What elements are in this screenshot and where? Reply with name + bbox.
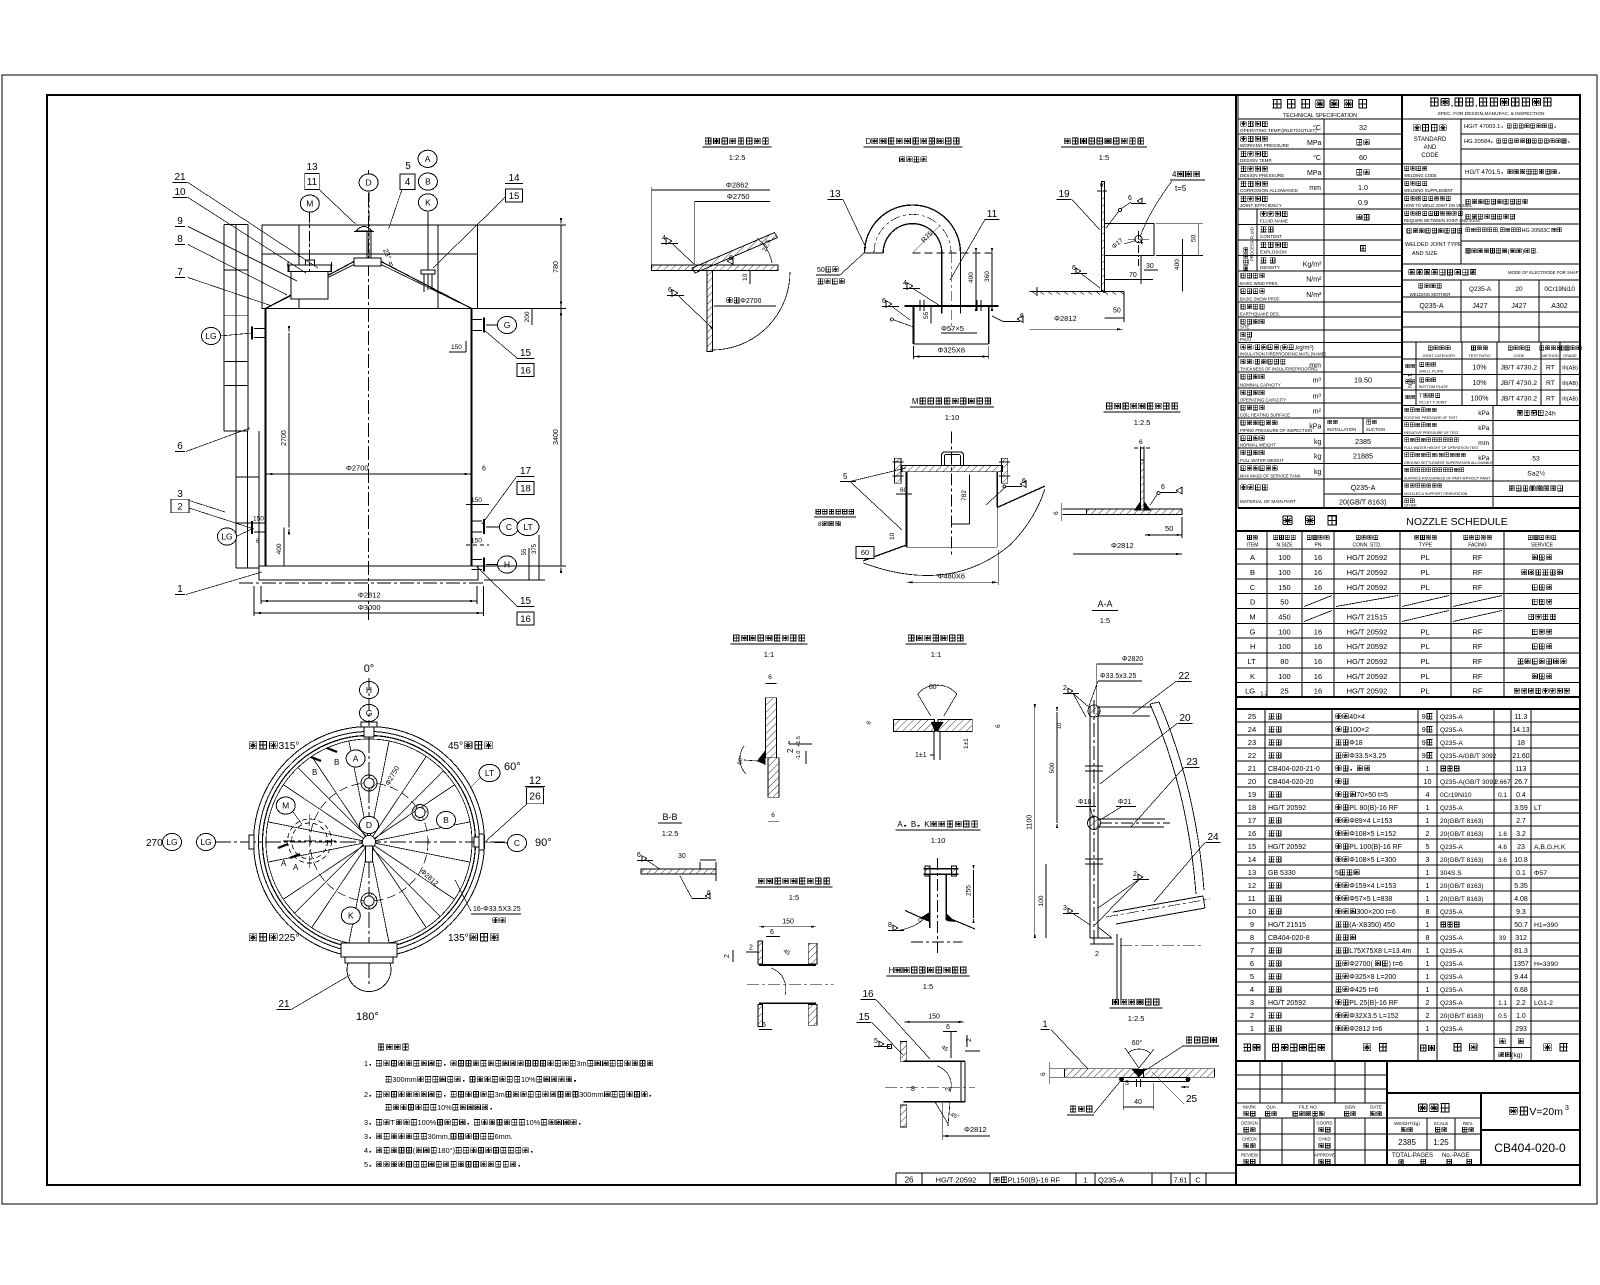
bottom brace plates — [1113, 896, 1203, 912]
svg-text:16: 16 — [1314, 642, 1322, 651]
svg-text:1: 1 — [1426, 985, 1430, 994]
svg-text:RF: RF — [1473, 657, 1483, 666]
svg-text:GRADE: GRADE — [1563, 354, 1577, 358]
svg-text:100: 100 — [1278, 628, 1291, 637]
svg-text:25: 25 — [1248, 712, 1256, 721]
parts row item 12 — [1236, 890, 1580, 892]
svg-text:26: 26 — [529, 791, 541, 803]
svg-text:Φ325X6: Φ325X6 — [937, 346, 965, 355]
svg-text:Φ159×4 L=153: Φ159×4 L=153 — [1349, 883, 1396, 890]
svg-text:III(AB): III(AB) — [1562, 381, 1578, 387]
svg-text:1:10: 1:10 — [931, 836, 946, 845]
svg-text:26.7: 26.7 — [1514, 779, 1528, 786]
svg-text:Φ480X6: Φ480X6 — [937, 572, 965, 581]
svg-text:16: 16 — [1314, 657, 1322, 666]
svg-text:RF: RF — [1473, 628, 1483, 637]
svg-text:°C: °C — [1313, 154, 1321, 162]
parts row item 1 — [1236, 1033, 1580, 1035]
svg-text:HG/T 20592: HG/T 20592 — [1347, 583, 1388, 592]
svg-text:0Cr19Ni10: 0Cr19Ni10 — [1544, 286, 1575, 293]
svg-text:1: 1 — [1426, 764, 1430, 773]
svg-text:HOW TO WELD JOINT ON VESSEL: HOW TO WELD JOINT ON VESSEL — [1404, 203, 1473, 208]
svg-text:1: 1 — [1042, 1019, 1047, 1029]
svg-text:6: 6 — [1139, 439, 1143, 446]
svg-text:kg: kg — [1314, 439, 1322, 446]
svg-text:Φ18: Φ18 — [1078, 799, 1091, 806]
svg-text:1: 1 — [1083, 1176, 1087, 1185]
svg-text:A: A — [425, 154, 431, 164]
svg-text:PL: PL — [1421, 642, 1430, 651]
svg-text:III(AB): III(AB) — [1562, 397, 1578, 403]
tank top curb ring band — [262, 225, 478, 309]
svg-text:K: K — [425, 198, 431, 208]
svg-text:HG/T 20592: HG/T 20592 — [1268, 1000, 1306, 1007]
svg-text:1: 1 — [1426, 881, 1430, 890]
svg-text:3: 3 — [1063, 905, 1067, 912]
svg-text:FULL WATER HEIGHT OF OPERATION: FULL WATER HEIGHT OF OPERATION TEST — [1404, 446, 1480, 450]
title block — [1236, 1061, 1580, 1165]
svg-text:9: 9 — [1422, 712, 1426, 721]
svg-text:C: C — [1195, 1176, 1201, 1185]
svg-text:DESIGN PRESSURE: DESIGN PRESSURE — [1240, 173, 1284, 178]
svg-text:MODE OF ELECTRODE FOR SHAFT: MODE OF ELECTRODE FOR SHAFT — [1508, 270, 1581, 275]
parts row item 23 — [1236, 747, 1580, 749]
svg-text:10%: 10% — [1473, 380, 1487, 387]
manhole M (elevation) — [291, 271, 328, 299]
svg-text:APPROVE: APPROVE — [1314, 1153, 1335, 1158]
svg-text:PL 25(B)-16 RF: PL 25(B)-16 RF — [1349, 1000, 1398, 1007]
svg-text:TYPE: TYPE — [1419, 543, 1433, 549]
svg-text:FULL WATER WEIGHT: FULL WATER WEIGHT — [1240, 458, 1284, 463]
nozzle G — [472, 319, 483, 321]
right-side tables block — [896, 95, 1581, 1185]
svg-text:LG1-2: LG1-2 — [1534, 1000, 1553, 1007]
svg-text:1: 1 — [1426, 946, 1430, 955]
svg-text:100: 100 — [1038, 895, 1045, 906]
svg-text:FILLET T-JOINT: FILLET T-JOINT — [1419, 401, 1447, 405]
svg-text:150: 150 — [928, 1014, 940, 1021]
svg-text:D: D — [366, 820, 372, 830]
svg-text:JB/T 4730.2: JB/T 4730.2 — [1501, 396, 1538, 403]
parts row item 6 — [1236, 968, 1580, 970]
svg-text:Q235-A: Q235-A — [1440, 909, 1463, 916]
svg-text:LG: LG — [166, 837, 177, 847]
svg-text:23: 23 — [1186, 757, 1198, 768]
svg-text:N.SIZE: N.SIZE — [1276, 543, 1293, 549]
svg-text:100: 100 — [1278, 672, 1291, 681]
rafter orbit dash circle — [310, 783, 428, 901]
svg-text:20: 20 — [1515, 286, 1523, 293]
svg-text:JOINT CATEGORY: JOINT CATEGORY — [1423, 354, 1456, 358]
svg-text:COIL HEATING SURFACE: COIL HEATING SURFACE — [1240, 413, 1290, 418]
svg-text:HG/T 20592: HG/T 20592 — [1347, 642, 1388, 651]
svg-text:255: 255 — [966, 885, 973, 896]
svg-text:9: 9 — [1250, 920, 1254, 929]
svg-text:T: T — [1419, 394, 1423, 400]
svg-text:60°: 60° — [929, 683, 940, 691]
svg-text:8: 8 — [818, 521, 822, 528]
svg-text:HG/T 20592: HG/T 20592 — [1347, 672, 1388, 681]
svg-text:6: 6 — [668, 287, 672, 294]
center nozzle flange and D vent pipe — [354, 258, 381, 266]
svg-text:°C: °C — [1313, 124, 1321, 132]
svg-text:0.1: 0.1 — [1498, 792, 1507, 799]
svg-text:JOINT EFFICIENCY: JOINT EFFICIENCY — [1240, 203, 1282, 208]
svg-text:SCALE: SCALE — [1434, 1121, 1449, 1126]
svg-text:Q235-A: Q235-A — [1440, 844, 1463, 851]
svg-text:B: B — [425, 177, 431, 187]
svg-text:55: 55 — [522, 548, 528, 555]
svg-text:Φ325×8 L=200: Φ325×8 L=200 — [1349, 974, 1396, 981]
nameplate bulge at 180° — [341, 943, 397, 957]
svg-text:17: 17 — [1248, 816, 1256, 825]
detail: nozzles A,B,K connection 1:10 — [888, 820, 981, 953]
svg-text:DESIGN: DESIGN — [1241, 1121, 1257, 1126]
svg-text:A: A — [353, 754, 359, 764]
svg-text:Φ2750: Φ2750 — [727, 192, 750, 201]
svg-text:60: 60 — [900, 487, 908, 494]
svg-text:55: 55 — [923, 311, 930, 319]
svg-text:Φ2812: Φ2812 — [1111, 541, 1134, 550]
svg-text:K: K — [1250, 672, 1255, 681]
svg-text:Φ108×5 L=152: Φ108×5 L=152 — [1349, 831, 1396, 838]
svg-text:10: 10 — [1248, 907, 1256, 916]
svg-text:A-A: A-A — [1097, 599, 1112, 609]
svg-text:4: 4 — [662, 235, 666, 242]
svg-text:(A-X8350) 450: (A-X8350) 450 — [1349, 922, 1395, 929]
svg-text:Φ21: Φ21 — [1118, 799, 1131, 806]
svg-text:No.-PAGE: No.-PAGE — [1442, 1153, 1470, 1159]
svg-text:200: 200 — [524, 311, 531, 322]
svg-text:LG: LG — [1245, 687, 1255, 696]
dim 780 and 3400 (right) — [478, 224, 566, 226]
svg-text:3: 3 — [177, 489, 183, 500]
svg-text:15: 15 — [520, 348, 532, 359]
svg-text:III(AB): III(AB) — [1562, 366, 1578, 372]
svg-text:3400: 3400 — [553, 429, 560, 445]
svg-text:CB404-020-20: CB404-020-20 — [1268, 779, 1314, 786]
svg-text:M: M — [1249, 613, 1255, 622]
rim nozzle LG at 270° — [249, 835, 254, 849]
svg-text:4: 4 — [1172, 170, 1177, 179]
svg-text:+1.5: +1.5 — [796, 736, 802, 747]
svg-text:GB 5330: GB 5330 — [1268, 870, 1296, 877]
svg-text:1:2.5: 1:2.5 — [729, 153, 746, 162]
svg-text:T: T — [390, 1118, 395, 1127]
svg-text:Q235-A: Q235-A — [1440, 727, 1463, 734]
svg-text:BASIC SNOW PROF.: BASIC SNOW PROF. — [1240, 297, 1280, 302]
svg-text:100: 100 — [1278, 568, 1291, 577]
svg-text:H: H — [504, 560, 510, 570]
svg-text:6: 6 — [1161, 484, 1165, 491]
parts row item 14 — [1236, 864, 1580, 866]
svg-text:1.6: 1.6 — [1498, 831, 1507, 838]
tank vertical centerline — [368, 170, 370, 620]
svg-text:m³: m³ — [1313, 378, 1322, 385]
svg-text:6: 6 — [1072, 265, 1076, 272]
shell seam marks with 150 dims — [466, 504, 489, 506]
ladder / gauge column — [223, 224, 225, 431]
svg-text:24: 24 — [1207, 832, 1219, 843]
svg-text:D: D — [1250, 598, 1256, 607]
svg-text:17: 17 — [520, 466, 532, 477]
svg-text:CB404-020-8: CB404-020-8 — [1268, 935, 1310, 942]
svg-text:304S.S: 304S.S — [1440, 870, 1462, 877]
svg-text:19: 19 — [1058, 189, 1070, 200]
svg-text:M: M — [912, 397, 919, 406]
svg-text:SERVICE: SERVICE — [1531, 543, 1554, 549]
svg-text:H=3390: H=3390 — [1534, 961, 1558, 968]
svg-text:0Cr19Ni10: 0Cr19Ni10 — [1440, 792, 1472, 799]
svg-text:6: 6 — [637, 852, 641, 859]
svg-text:10%: 10% — [437, 1103, 452, 1112]
detail: bottom plate butt joint 1:2.5 — [1040, 999, 1219, 1115]
material of main part rows — [1241, 485, 1268, 490]
svg-text:1: 1 — [1426, 920, 1430, 929]
technical specification table — [1238, 95, 1580, 508]
svg-text:5: 5 — [874, 1038, 878, 1045]
svg-text:782: 782 — [961, 490, 968, 501]
svg-text:50: 50 — [1113, 308, 1121, 315]
svg-text:Φ32X3.5 L=152: Φ32X3.5 L=152 — [1349, 1013, 1398, 1020]
svg-text:1±1: 1±1 — [963, 738, 970, 749]
svg-text:SIGN: SIGN — [1344, 1105, 1355, 1110]
svg-text:5: 5 — [405, 161, 411, 172]
svg-text:WEIGHT(kg): WEIGHT(kg) — [1394, 1121, 1420, 1126]
svg-text:OPERATING TEMP.(INLET/OUTLET): OPERATING TEMP.(INLET/OUTLET) — [1240, 128, 1317, 133]
svg-text:1: 1 — [1426, 803, 1430, 812]
svg-text:12: 12 — [1248, 881, 1256, 890]
detail: earthing plate to shell weld 1:5 — [1029, 138, 1205, 331]
svg-text:FLUID NAME: FLUID NAME — [1260, 219, 1288, 224]
svg-text:Φ2812: Φ2812 — [1054, 314, 1077, 323]
svg-text:3: 3 — [1250, 998, 1254, 1007]
svg-text:PL: PL — [1421, 553, 1430, 562]
parts row item 2 — [1236, 1020, 1580, 1022]
svg-text:50: 50 — [1191, 234, 1198, 242]
tie rod bar — [1089, 706, 1091, 938]
svg-text:150: 150 — [451, 344, 462, 351]
svg-text:Q235-A: Q235-A — [1419, 303, 1443, 310]
svg-text:PL: PL — [1421, 672, 1430, 681]
svg-text:40: 40 — [1134, 1099, 1142, 1106]
svg-text:LG: LG — [205, 331, 216, 341]
svg-text:N/m²: N/m² — [1306, 277, 1322, 284]
svg-text:RT: RT — [1546, 380, 1555, 387]
svg-text:6mm.: 6mm. — [495, 1132, 513, 1141]
svg-text:M: M — [282, 801, 289, 811]
svg-text:10%: 10% — [521, 1075, 536, 1084]
svg-text:OPERATING CAPACITY: OPERATING CAPACITY — [1240, 398, 1286, 403]
svg-text:2: 2 — [724, 954, 731, 958]
detail: D pipe to roof center plate (gooseneck) — [816, 137, 1024, 359]
svg-text:METHOD: METHOD — [1542, 354, 1559, 358]
svg-text:90°: 90° — [535, 837, 552, 849]
svg-text:5: 5 — [843, 472, 848, 481]
svg-text:HG/T 20592: HG/T 20592 — [1347, 553, 1388, 562]
svg-text:INSULATION FIREPROOFING MATL (: INSULATION FIREPROOFING MATL (NAME) — [1240, 352, 1326, 357]
svg-text:80: 80 — [1280, 657, 1288, 666]
manhole M (plan) — [288, 819, 332, 863]
svg-text:PL150(B)-16 RF: PL150(B)-16 RF — [1008, 1176, 1061, 1185]
svg-text:CONTENT: CONTENT — [1260, 234, 1282, 239]
svg-text:C: C — [1250, 583, 1256, 592]
svg-text:6: 6 — [1250, 959, 1254, 968]
svg-text:PL: PL — [1421, 568, 1430, 577]
svg-text:JB/T 4730.2: JB/T 4730.2 — [1501, 365, 1538, 372]
svg-text:Q235-A: Q235-A — [1440, 974, 1463, 981]
parts row item 25 — [1236, 721, 1580, 723]
svg-text:N/m²: N/m² — [1306, 292, 1322, 299]
svg-text:Q235-A: Q235-A — [1440, 714, 1463, 721]
svg-text:21.60: 21.60 — [1512, 753, 1530, 760]
svg-text:3m: 3m — [577, 1059, 587, 1068]
svg-text:,: , — [1475, 97, 1478, 109]
parts row item 15 — [1236, 851, 1580, 853]
gooseneck bend — [865, 205, 961, 253]
svg-text:Φ108×5 L=300: Φ108×5 L=300 — [1349, 857, 1396, 864]
svg-text:HG/T 20592: HG/T 20592 — [1347, 657, 1388, 666]
svg-text:6: 6 — [762, 1022, 766, 1029]
svg-text:6: 6 — [946, 1024, 950, 1031]
svg-text:22: 22 — [1178, 671, 1190, 682]
table column separator line — [1235, 95, 1237, 1185]
svg-text:MARK: MARK — [1243, 1105, 1256, 1110]
parts row item 24 — [1236, 734, 1580, 736]
svg-text:Φ57×5 L=838: Φ57×5 L=838 — [1349, 896, 1392, 903]
parts row item 8 — [1236, 942, 1580, 944]
svg-text:CB404-020-0: CB404-020-0 — [1494, 1141, 1566, 1155]
svg-text:11: 11 — [1248, 894, 1256, 903]
svg-text:NOZZLES & SUPPORT ORIENTATION: NOZZLES & SUPPORT ORIENTATION — [1404, 492, 1468, 496]
svg-text:16: 16 — [1314, 553, 1322, 562]
svg-text:G: G — [504, 320, 511, 330]
svg-text:COORD: COORD — [1317, 1121, 1333, 1126]
svg-text:3: 3 — [1565, 1105, 1569, 1112]
svg-text:REV.: REV. — [1463, 1121, 1473, 1126]
svg-text:/: / — [1253, 345, 1255, 352]
svg-text:100%: 100% — [418, 1118, 437, 1127]
svg-text:2: 2 — [364, 1090, 368, 1099]
svg-text:A,B,G,H,K: A,B,G,H,K — [1534, 844, 1566, 851]
process fluid group rows — [1256, 209, 1258, 271]
svg-text:RF: RF — [1473, 583, 1483, 592]
svg-text:2700: 2700 — [281, 430, 288, 446]
svg-text:G: G — [1250, 628, 1256, 637]
svg-text:180°): 180°) — [438, 1146, 456, 1155]
parts row item 10 — [1236, 916, 1580, 918]
svg-text:15: 15 — [858, 1012, 870, 1023]
svg-text:23: 23 — [1248, 738, 1256, 747]
svg-text:100×2: 100×2 — [1349, 727, 1369, 734]
svg-text:Φ33.5x3.25: Φ33.5x3.25 — [1100, 673, 1136, 680]
svg-text:50: 50 — [1280, 598, 1288, 607]
svg-text:50: 50 — [817, 267, 825, 274]
svg-text:8: 8 — [1426, 907, 1430, 916]
nozzle schedule table — [1236, 516, 1580, 698]
svg-text:HG/T 20592: HG/T 20592 — [1268, 805, 1306, 812]
svg-text:400: 400 — [1174, 259, 1181, 270]
parts row item 16 — [1236, 838, 1580, 840]
svg-text:Q235-A: Q235-A — [1440, 740, 1463, 747]
svg-text:4: 4 — [1426, 790, 1430, 799]
svg-text:1:2.5: 1:2.5 — [1128, 1014, 1145, 1023]
svg-text:SITE: SITE — [1240, 325, 1250, 330]
svg-text:18: 18 — [1248, 803, 1256, 812]
svg-text:4: 4 — [364, 1146, 368, 1155]
svg-text:BASIC WIND PRES.: BASIC WIND PRES. — [1240, 281, 1279, 286]
svg-text:B: B — [334, 758, 339, 767]
svg-text:10: 10 — [1424, 777, 1432, 786]
svg-text:20(GB/T 8163): 20(GB/T 8163) — [1440, 857, 1484, 864]
svg-text:16: 16 — [1314, 628, 1322, 637]
svg-text:1.0: 1.0 — [1516, 1013, 1526, 1020]
svg-text:RF: RF — [1473, 642, 1483, 651]
svg-text:23: 23 — [1517, 844, 1525, 851]
dims 1100/500/100/10 — [1034, 710, 1036, 932]
svg-text:HG/T 20592: HG/T 20592 — [1347, 568, 1388, 577]
svg-text:0.9: 0.9 — [1358, 198, 1368, 207]
detail: nozzle pipe to shell spool 1:5 — [724, 878, 834, 1030]
cone roof — [266, 262, 354, 309]
design, fabrication and inspection spec table — [1402, 97, 1581, 508]
svg-text:MPa: MPa — [1307, 170, 1322, 177]
tank elevation view — [171, 150, 566, 625]
parts row item 4 — [1236, 994, 1580, 996]
svg-text:20(GB/T 8163): 20(GB/T 8163) — [1440, 818, 1484, 825]
svg-text:150: 150 — [782, 919, 794, 926]
svg-text:(: ( — [1508, 249, 1510, 255]
svg-text:LT: LT — [523, 522, 532, 532]
svg-text:PL 80(B)-16 RF: PL 80(B)-16 RF — [1349, 805, 1398, 812]
svg-text:CORROSION ALLOWANCE: CORROSION ALLOWANCE — [1240, 188, 1298, 193]
svg-text:D: D — [866, 137, 872, 146]
svg-text:16: 16 — [1314, 672, 1322, 681]
svg-text:225°: 225° — [279, 933, 300, 944]
svg-text:4: 4 — [903, 280, 907, 287]
svg-text:K: K — [924, 820, 930, 829]
svg-text:TECHNICAL SPECIFICATION: TECHNICAL SPECIFICATION — [1283, 113, 1357, 119]
svg-text:AND SIZE: AND SIZE — [1412, 251, 1438, 257]
svg-text:13: 13 — [306, 162, 318, 173]
svg-text:kg: kg — [1314, 454, 1322, 461]
svg-text:1357: 1357 — [1513, 961, 1529, 968]
svg-text:kPa: kPa — [1309, 424, 1321, 431]
svg-text:PL: PL — [1421, 628, 1430, 637]
svg-text:360: 360 — [984, 271, 991, 282]
svg-text:13: 13 — [1248, 868, 1256, 877]
svg-text:3.6: 3.6 — [1498, 857, 1507, 864]
svg-text:2: 2 — [1063, 685, 1067, 692]
svg-text:K: K — [348, 911, 354, 921]
svg-text:8: 8 — [177, 234, 183, 245]
svg-text:CONN. STD.: CONN. STD. — [1353, 543, 1382, 549]
nozzle A (plan) — [361, 775, 377, 791]
parts row item 17 — [1236, 825, 1580, 827]
svg-text:DESIGN TEMP.: DESIGN TEMP. — [1240, 158, 1272, 163]
parts row item 22 — [1236, 760, 1580, 762]
svg-text:60: 60 — [861, 548, 869, 557]
svg-text:SPEC. FOR DESIGN,MANUFAC. & IN: SPEC. FOR DESIGN,MANUFAC. & INSPECTION — [1438, 111, 1545, 117]
svg-text:60°: 60° — [504, 761, 521, 773]
parts row item 7 — [1236, 955, 1580, 957]
svg-text:Q235-A: Q235-A — [1440, 1026, 1463, 1033]
svg-text:14: 14 — [1248, 855, 1256, 864]
svg-text:,: , — [1451, 97, 1454, 109]
svg-text:Q235-A: Q235-A — [1440, 1000, 1463, 1007]
svg-text:/: / — [1253, 359, 1255, 366]
svg-text:A: A — [897, 820, 903, 829]
